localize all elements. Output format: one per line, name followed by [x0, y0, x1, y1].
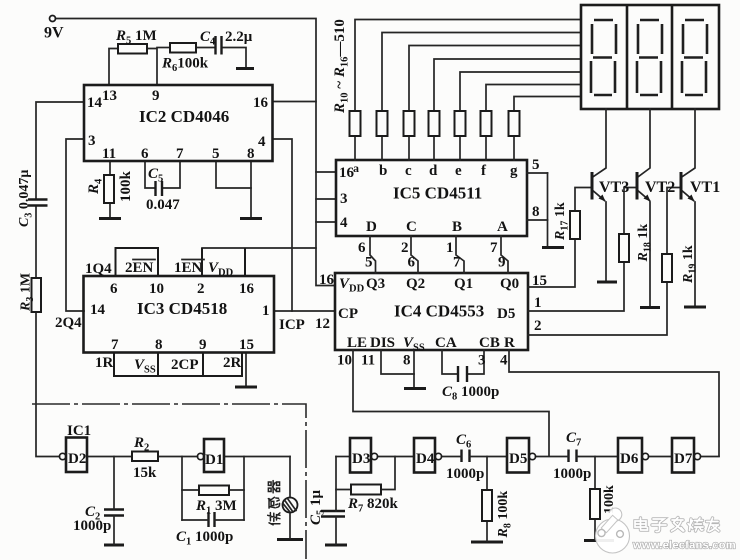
svg-text:8: 8 [155, 337, 163, 353]
svg-text:2R: 2R [223, 355, 242, 371]
svg-text:Q1: Q1 [454, 276, 473, 292]
svg-text:16: 16 [253, 95, 269, 111]
svg-text:D: D [366, 219, 377, 235]
svg-text:Q0: Q0 [500, 276, 519, 292]
svg-text:8: 8 [247, 146, 255, 162]
svg-text:1EN: 1EN [174, 260, 203, 276]
svg-text:7: 7 [176, 146, 184, 162]
svg-text:15k: 15k [133, 465, 157, 481]
svg-text:IC1: IC1 [67, 423, 91, 439]
svg-text:16: 16 [319, 272, 335, 288]
svg-text:6: 6 [408, 255, 416, 271]
svg-text:R8 100k: R8 100k [496, 491, 514, 539]
svg-text:IC2 CD4046: IC2 CD4046 [139, 107, 229, 126]
svg-text:CP: CP [338, 306, 358, 322]
svg-text:1000p: 1000p [73, 518, 111, 534]
svg-text:D4: D4 [416, 451, 435, 467]
svg-text:9: 9 [199, 337, 207, 353]
svg-text:4: 4 [340, 215, 348, 231]
svg-text:D7: D7 [674, 451, 693, 467]
svg-text:CB: CB [479, 335, 500, 351]
svg-text:VT3: VT3 [599, 179, 629, 196]
svg-text:e: e [455, 163, 462, 179]
svg-text:1R: 1R [95, 355, 114, 371]
svg-text:2.2μ: 2.2μ [225, 29, 253, 45]
svg-text:11: 11 [361, 353, 375, 369]
svg-text:7: 7 [490, 240, 498, 256]
svg-text:a: a [353, 161, 359, 175]
svg-text:6: 6 [141, 146, 149, 162]
svg-text:R7 820k: R7 820k [347, 496, 399, 515]
svg-text:9: 9 [152, 88, 160, 104]
svg-text:10: 10 [149, 281, 164, 297]
svg-text:d: d [429, 163, 438, 179]
svg-text:2EN: 2EN [125, 260, 154, 276]
svg-text:VT2: VT2 [645, 179, 675, 196]
svg-text:8: 8 [403, 353, 411, 369]
svg-text:D3: D3 [352, 451, 370, 467]
svg-text:c: c [405, 163, 412, 179]
svg-text:C5 1μ: C5 1μ [308, 489, 327, 525]
svg-text:R1 3M: R1 3M [195, 498, 237, 517]
svg-text:13: 13 [102, 88, 117, 104]
svg-text:15: 15 [532, 273, 547, 289]
svg-text:www.elecfans.com: www.elecfans.com [632, 540, 736, 552]
svg-text:14: 14 [90, 302, 106, 318]
svg-text:g: g [510, 163, 518, 179]
svg-text:5: 5 [212, 146, 220, 162]
svg-text:8: 8 [532, 204, 540, 220]
svg-text:b: b [379, 163, 387, 179]
svg-text:D5: D5 [497, 306, 515, 322]
svg-text:D2: D2 [68, 451, 86, 467]
svg-text:3: 3 [88, 133, 96, 149]
svg-text:1: 1 [534, 295, 542, 311]
svg-text:10: 10 [337, 353, 352, 369]
svg-text:1000p: 1000p [446, 466, 484, 482]
svg-text:R3 1M: R3 1M [19, 273, 37, 312]
svg-text:D5: D5 [509, 451, 527, 467]
svg-text:Q2: Q2 [406, 276, 425, 292]
svg-text:15: 15 [239, 337, 254, 353]
svg-text:R17 1k: R17 1k [553, 202, 571, 241]
svg-text:IC5 CD4511: IC5 CD4511 [393, 184, 482, 203]
svg-text:CA: CA [435, 335, 457, 351]
svg-text:C: C [406, 219, 417, 235]
svg-text:R19 1k: R19 1k [681, 245, 699, 284]
svg-text:14: 14 [87, 95, 103, 111]
svg-text:3: 3 [340, 191, 348, 207]
svg-text:1: 1 [262, 303, 270, 319]
svg-text:ICP: ICP [279, 317, 305, 333]
svg-text:C1 1000p: C1 1000p [176, 529, 233, 548]
svg-text:Q3: Q3 [366, 276, 385, 292]
svg-text:IC4 CD4553: IC4 CD4553 [394, 302, 484, 321]
svg-text:R18 1k: R18 1k [636, 224, 654, 263]
svg-text:DIS: DIS [370, 335, 395, 351]
svg-text:R5 1M: R5 1M [115, 28, 157, 47]
svg-text:100k: 100k [118, 171, 134, 203]
svg-text:4: 4 [500, 353, 508, 369]
svg-text:1Q4: 1Q4 [85, 261, 112, 277]
svg-text:6: 6 [110, 281, 118, 297]
svg-text:B: B [452, 219, 462, 235]
svg-text:2Q4: 2Q4 [55, 315, 82, 331]
svg-text:7: 7 [453, 255, 461, 271]
svg-text:D6: D6 [620, 451, 639, 467]
svg-text:A: A [497, 219, 508, 235]
svg-text:9V: 9V [44, 25, 64, 42]
svg-text:R6100k: R6100k [161, 56, 209, 75]
svg-text:VT1: VT1 [690, 179, 720, 196]
svg-text:4: 4 [258, 134, 266, 150]
svg-text:3: 3 [478, 353, 486, 369]
svg-text:2CP: 2CP [171, 357, 199, 373]
svg-text:7: 7 [111, 337, 119, 353]
svg-text:C8 1000p: C8 1000p [442, 384, 499, 403]
svg-text:5: 5 [365, 255, 373, 271]
svg-text:11: 11 [102, 146, 116, 162]
svg-text:9: 9 [498, 255, 506, 271]
svg-text:0.047: 0.047 [146, 197, 180, 213]
svg-text:D1: D1 [205, 452, 223, 468]
svg-text:16: 16 [239, 281, 255, 297]
svg-text:12: 12 [315, 316, 330, 332]
svg-text:LE: LE [347, 335, 367, 351]
svg-text:R: R [504, 335, 515, 351]
svg-text:5: 5 [532, 157, 540, 173]
svg-text:IC3 CD4518: IC3 CD4518 [137, 299, 227, 318]
svg-text:2: 2 [197, 281, 205, 297]
svg-text:1000p: 1000p [553, 466, 591, 482]
svg-text:2: 2 [534, 318, 542, 334]
svg-text:C3 0.047μ: C3 0.047μ [17, 170, 35, 227]
